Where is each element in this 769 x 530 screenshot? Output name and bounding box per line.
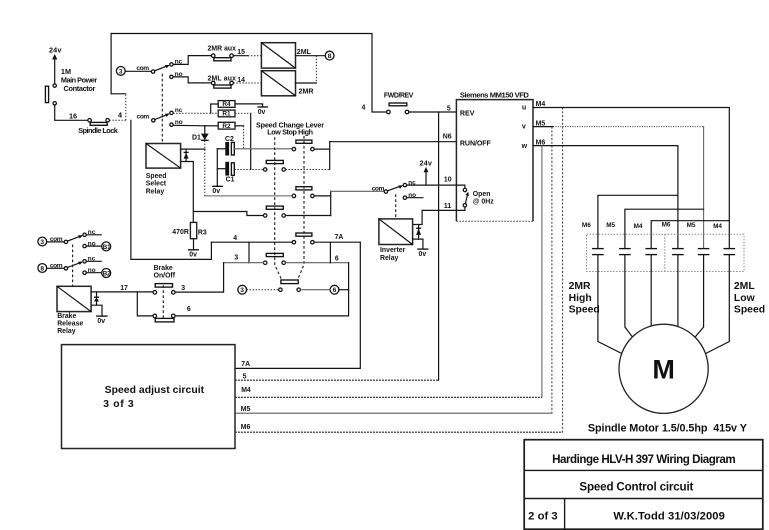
ground 0v at inverter relay <box>413 239 429 258</box>
svg-text:M4: M4 <box>241 387 251 394</box>
contact FWD/REV <box>384 93 414 114</box>
wire node3 to com <box>125 70 151 72</box>
contact lever rowB upper <box>292 187 314 198</box>
contactor contact 2MR-M6 <box>592 249 622 354</box>
svg-text:@ 0Hz: @ 0Hz <box>473 199 494 206</box>
svg-text:Low Stop High: Low Stop High <box>267 127 313 136</box>
switch com row1 (speed select) <box>136 56 211 83</box>
ground 0v at brake relay <box>91 305 108 325</box>
svg-text:Spindle Motor 1.5/0.5hp 415v: Spindle Motor 1.5/0.5hp 415v Y <box>588 423 748 435</box>
svg-text:24v: 24v <box>49 46 62 55</box>
svg-text:Release: Release <box>57 321 83 328</box>
svg-text:C1: C1 <box>226 177 235 184</box>
wire nc to VFD pin10 <box>407 184 457 186</box>
wire 2ML coil output to node 8 <box>296 55 326 57</box>
svg-text:Relay: Relay <box>380 255 399 262</box>
svg-text:Brake: Brake <box>154 265 173 272</box>
node 6 terminal rowD <box>330 285 339 294</box>
contactor contact 2MR-M5 <box>619 249 634 340</box>
svg-text:M5: M5 <box>687 222 696 229</box>
svg-text:M4: M4 <box>713 223 722 230</box>
relay coil 2ML <box>261 43 311 68</box>
svg-text:Contactor: Contactor <box>64 84 96 93</box>
svg-text:w: w <box>521 142 528 150</box>
wire node4 down-feed to lever row C <box>131 120 212 259</box>
resistor R2 <box>218 122 235 130</box>
wire rowA upper to N6 rail <box>314 148 330 150</box>
switch Spindle Lock <box>78 119 118 135</box>
svg-text:2MR: 2MR <box>299 87 314 95</box>
linkage dashed inverter switch <box>395 194 397 219</box>
svg-text:On/Off: On/Off <box>154 272 176 279</box>
wire node4 to rowC upper <box>211 241 292 243</box>
svg-text:10: 10 <box>444 176 452 183</box>
wire link node4 to node3 <box>248 242 250 263</box>
svg-text:R1: R1 <box>222 111 231 118</box>
svg-text:2MR: 2MR <box>569 281 591 292</box>
linkage dashed brake on/off <box>162 285 164 320</box>
svg-text:470R: 470R <box>172 229 189 236</box>
wire 7A down to adjust box <box>235 242 360 368</box>
switch com B2 <box>47 256 101 275</box>
svg-text:16: 16 <box>69 111 77 120</box>
labels motor bank 2ML group <box>662 222 723 230</box>
wire top rail to FWD/REV <box>111 34 387 113</box>
wire FWD/REV to VFD pin5 <box>409 111 457 113</box>
wire VFD pin11 to inverter relay <box>413 210 457 224</box>
label Brake On/Off <box>154 265 176 279</box>
contact 2ML aux <box>208 75 246 88</box>
motor M spindle <box>619 324 708 413</box>
svg-text:M: M <box>652 355 675 385</box>
wire M4 drop to adjust box <box>562 108 564 433</box>
svg-text:W.K.Todd 31/03/2009: W.K.Todd 31/03/2009 <box>613 511 725 523</box>
svg-text:R4: R4 <box>222 101 231 108</box>
wire no row2 to R2 <box>173 124 205 127</box>
wire v M5 to rail <box>533 126 553 128</box>
node 3 terminal <box>116 67 125 76</box>
labels motor bank 2MR group <box>582 222 643 230</box>
svg-text:M6: M6 <box>662 222 671 229</box>
contact lever rowA upper <box>292 140 314 151</box>
resistor R4 <box>211 101 235 114</box>
svg-text:RUN/OFF: RUN/OFF <box>460 139 492 147</box>
wire rowC upper to 7A riser <box>314 241 360 243</box>
wire com riser inverter <box>330 191 332 215</box>
svg-text:R2: R2 <box>222 123 231 130</box>
label 2ML Low Speed <box>734 281 765 315</box>
svg-text:Brake: Brake <box>57 313 76 320</box>
contactor contact 2ML-M6 <box>672 249 684 327</box>
svg-text:14: 14 <box>237 77 245 84</box>
title block <box>524 440 763 530</box>
wire relay top stub to D1 <box>181 148 205 150</box>
wire 7A junction riser <box>329 242 331 263</box>
wire 2MR coil output join <box>296 56 317 83</box>
svg-text:Speed adjust circuit: Speed adjust circuit <box>105 385 205 396</box>
relay Inverter <box>379 219 413 262</box>
diode D1 <box>192 126 209 196</box>
switch com B1 <box>47 229 101 248</box>
wire M6 drop to adjust box <box>541 146 543 398</box>
contact open at 0Hz inside VFD <box>456 185 494 210</box>
node B1 terminal <box>102 242 111 251</box>
wire N6 rail to VFD <box>330 141 457 143</box>
wire M5 drop to adjust box <box>551 127 553 414</box>
svg-text:u: u <box>522 103 526 111</box>
svg-text:Select: Select <box>146 181 167 188</box>
svg-text:0v: 0v <box>97 318 105 325</box>
svg-text:2ML: 2ML <box>297 48 312 56</box>
svg-text:v: v <box>522 123 526 131</box>
wire rowC lower to brake off <box>175 263 349 316</box>
svg-text:7A: 7A <box>335 234 344 241</box>
switch com row2 (node 4) <box>137 107 183 126</box>
svg-text:15: 15 <box>237 49 245 56</box>
svg-text:REV: REV <box>460 109 475 117</box>
svg-text:17: 17 <box>120 285 128 292</box>
contactor 1M contact <box>45 67 97 105</box>
node 3 terminal rowD <box>238 285 247 294</box>
wire 2MR aux to 2ML coil <box>233 55 248 57</box>
linkage dashed row1 com to speed select relay <box>161 74 163 144</box>
contact lever rowC upper <box>292 233 314 244</box>
svg-text:com: com <box>137 114 150 121</box>
svg-text:Open: Open <box>473 191 491 198</box>
box Speed adjust circuit <box>62 345 236 449</box>
svg-text:6: 6 <box>187 306 191 313</box>
svg-text:B1: B1 <box>103 244 111 251</box>
relay coil 2MR <box>261 71 313 96</box>
relay Speed Select <box>146 144 181 196</box>
wire 17 branch to lower contact <box>137 292 153 316</box>
svg-text:24v: 24v <box>420 159 433 168</box>
svg-text:High: High <box>569 293 592 304</box>
svg-text:3: 3 <box>40 239 44 246</box>
svg-text:5: 5 <box>243 374 247 381</box>
svg-text:0v: 0v <box>419 251 427 258</box>
wire D1 to rowB upper <box>205 195 292 197</box>
node 8 terminal <box>325 51 334 60</box>
svg-text:0v: 0v <box>212 188 220 195</box>
svg-text:3: 3 <box>119 68 123 75</box>
node 24v arrow inverter <box>420 159 433 186</box>
wire w M6 to rail <box>533 146 678 249</box>
switch com inverter <box>372 179 423 199</box>
node 3 terminal brake <box>38 237 47 246</box>
svg-text:M4: M4 <box>536 101 546 108</box>
node B2 terminal <box>102 269 111 278</box>
svg-text:M4: M4 <box>634 223 643 230</box>
svg-text:3: 3 <box>181 285 185 292</box>
svg-text:N6: N6 <box>443 133 452 140</box>
wire rowC lower right <box>286 262 349 264</box>
svg-text:M6: M6 <box>582 222 591 229</box>
wire relay bottom stub down <box>181 162 194 223</box>
contact brake on/off lower <box>153 306 191 322</box>
wire u M4 to right rail <box>533 108 729 249</box>
svg-text:4: 4 <box>233 235 237 242</box>
contact brake on/off upper <box>153 284 185 295</box>
capacitor C2 <box>217 136 234 155</box>
linkage dashed lever right <box>298 136 305 280</box>
label 2MR High Speed <box>569 281 600 315</box>
svg-text:0v: 0v <box>258 109 266 116</box>
svg-text:M5: M5 <box>241 406 251 413</box>
svg-text:nc: nc <box>175 107 183 114</box>
svg-text:M5: M5 <box>606 222 615 229</box>
wire N6 riser <box>329 142 331 170</box>
diode flyback speed select <box>184 149 189 161</box>
wire 17 brake relay to brake switch <box>91 291 153 293</box>
svg-text:Speed Control circuit: Speed Control circuit <box>579 481 693 494</box>
contact lever rowA lower <box>263 160 285 171</box>
contactor contact 2ML-M4 <box>706 249 735 354</box>
svg-text:Siemens MM150 VFD: Siemens MM150 VFD <box>460 91 530 100</box>
resistor R1 <box>218 110 235 118</box>
wire branch contact1 M6 <box>598 195 678 248</box>
svg-text:3: 3 <box>234 255 238 262</box>
contactor contact 2MR-M4 <box>645 249 657 327</box>
contact lever rowB lower <box>263 206 285 217</box>
wire R2 to C2 <box>235 126 244 149</box>
relay Brake Release <box>57 286 91 335</box>
svg-text:Inverter: Inverter <box>380 247 406 254</box>
svg-text:8: 8 <box>328 53 332 60</box>
contact lever rowC lower <box>263 253 285 264</box>
svg-text:7A: 7A <box>241 361 250 368</box>
wire pin5 drop to adjust box <box>438 112 440 380</box>
svg-text:R3: R3 <box>198 230 207 237</box>
svg-text:11: 11 <box>444 203 451 210</box>
diode flyback brake relay <box>94 292 99 305</box>
svg-text:3 of 3: 3 of 3 <box>103 399 134 410</box>
svg-text:2 of 3: 2 of 3 <box>528 511 558 523</box>
wire branch contact2 M5 <box>625 209 704 248</box>
svg-text:4: 4 <box>362 105 366 112</box>
wire rowA lower to N6 rail <box>286 169 330 171</box>
wire nc row2 to R1 <box>173 112 218 114</box>
wire spindle lock to node 4 <box>109 119 125 121</box>
svg-text:Speed: Speed <box>146 173 167 180</box>
svg-text:B2: B2 <box>103 271 111 278</box>
wire node3 drop to brake <box>175 263 224 292</box>
wire 2ML aux to 2MR coil <box>233 82 261 84</box>
svg-text:Speed: Speed <box>569 304 600 315</box>
contact 2MR aux <box>208 46 246 61</box>
svg-text:2MR aux: 2MR aux <box>208 46 237 53</box>
wire R1 to C-node <box>235 113 251 169</box>
wire 1M to node 16 <box>55 105 88 120</box>
wire com rail to inverter switch <box>331 190 385 192</box>
wire rowD to node6 <box>301 289 331 291</box>
enclosure dashed motor contact bank <box>587 234 744 271</box>
ground 0v at C1 <box>212 149 223 195</box>
svg-text:0v: 0v <box>189 252 197 259</box>
wire rowB upper to com riser <box>314 195 331 197</box>
svg-text:5: 5 <box>447 105 451 112</box>
contactor contact 2ML-M5 <box>693 249 710 340</box>
wire node6 stub <box>339 289 349 291</box>
svg-text:3: 3 <box>240 287 244 294</box>
wire node3 to rowD <box>247 289 279 291</box>
wire M6 line to adjust box <box>235 431 563 433</box>
linkage dashed lever left <box>275 137 282 280</box>
svg-text:FWD/REV: FWD/REV <box>384 93 414 100</box>
svg-text:M6: M6 <box>241 424 251 431</box>
ground 0v at R3 <box>188 239 199 259</box>
wire C1 to lever rowA lower <box>234 169 263 171</box>
wire M5 line to adjust box <box>235 412 552 414</box>
svg-text:Spindle Lock: Spindle Lock <box>78 126 118 135</box>
ground 0v at R4 <box>235 104 268 116</box>
svg-text:6: 6 <box>333 287 337 294</box>
contact lever rowD <box>279 280 301 291</box>
wire node3 to rowC lower <box>224 262 264 264</box>
linkage dashed B-switches to brake relay <box>72 245 74 287</box>
svg-text:com: com <box>372 186 385 193</box>
svg-text:com: com <box>136 65 149 72</box>
node 8 terminal brake <box>38 264 47 273</box>
node 24v supply <box>49 46 62 84</box>
VFD Siemens MM150 box <box>456 91 533 222</box>
wire rowB lower to com riser <box>286 215 331 217</box>
svg-text:8: 8 <box>40 266 44 273</box>
capacitor C1 <box>217 162 234 184</box>
svg-text:Speed: Speed <box>734 304 765 315</box>
svg-text:Relay: Relay <box>146 188 165 195</box>
wire branch contact3 M4 <box>651 221 729 249</box>
svg-text:Relay: Relay <box>57 328 76 335</box>
svg-text:Low: Low <box>734 293 756 304</box>
svg-text:2ML: 2ML <box>734 281 755 292</box>
wire node 4 riser to top rail <box>111 34 126 121</box>
resistor R3 470R <box>172 222 207 238</box>
svg-text:6: 6 <box>335 255 339 262</box>
svg-text:Hardinge HLV-H 397 Wiring Diag: Hardinge HLV-H 397 Wiring Diagram <box>552 453 736 466</box>
diode flyback inverter relay <box>416 225 421 240</box>
wire C2 to lever rowA <box>234 148 292 150</box>
svg-text:D1: D1 <box>192 134 201 141</box>
wire relay output to lever rowB lower <box>193 212 263 216</box>
